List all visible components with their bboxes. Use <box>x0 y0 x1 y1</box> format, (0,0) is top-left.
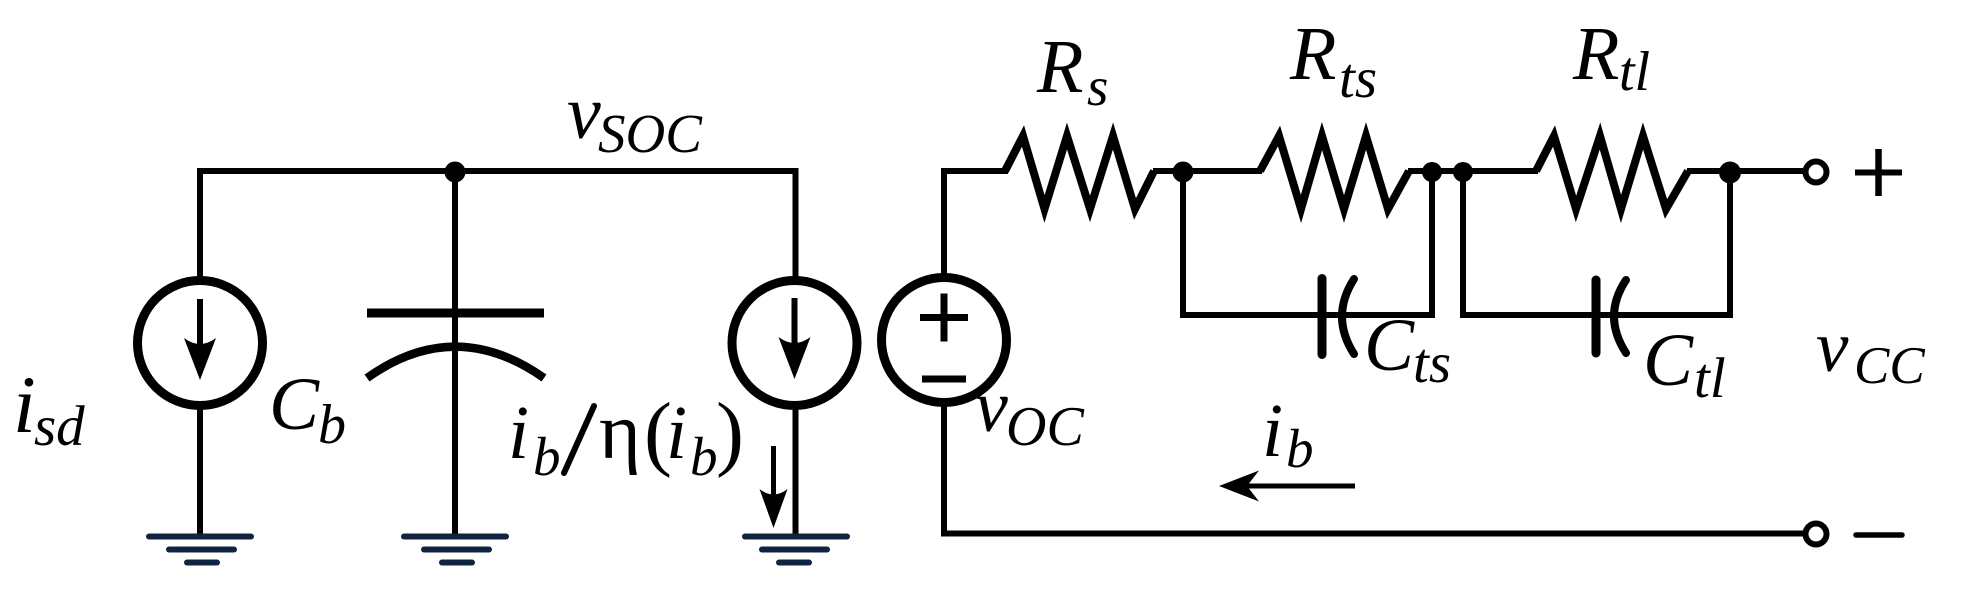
current source I2 arrow <box>792 298 798 355</box>
wire Rts to Rtl <box>1408 168 1538 174</box>
svg-text:CC: CC <box>1854 337 1925 395</box>
ground G3 <box>745 537 847 563</box>
svg-text:b: b <box>1286 418 1314 479</box>
svg-text:sd: sd <box>34 395 85 458</box>
wire right branch down to current source ib/eta <box>793 171 799 281</box>
wire Rtl to terminal <box>1687 168 1803 174</box>
current source I1 arrow <box>197 299 203 356</box>
wire below current source I1 <box>197 407 203 539</box>
capacitor Ctl curved plate <box>1614 280 1626 353</box>
wire capacitor Cb branch <box>452 171 458 539</box>
current direction arrow into ground <box>771 446 776 505</box>
capacitor Cts left plate <box>1318 279 1327 355</box>
svg-text:tl: tl <box>1619 41 1650 103</box>
svg-text:C: C <box>1643 319 1694 402</box>
terminal plus (open circle) <box>1806 162 1827 183</box>
ground G2 <box>404 537 506 563</box>
minus sign at terminal <box>1856 532 1902 538</box>
resistor Rtl zigzag <box>1536 136 1688 209</box>
voltage source plus sign <box>920 314 968 321</box>
wire left branch down to current source isd <box>197 171 203 281</box>
wire above voltage source vOC <box>941 171 947 280</box>
wire left side of Rtl-Ctl loop <box>1460 171 1466 318</box>
wire bottom of Rts-Cts loop <box>1180 312 1435 318</box>
wire right side of Rts-Cts loop <box>1429 171 1435 318</box>
svg-text:C: C <box>269 363 320 446</box>
wire Rs to Rts <box>1153 168 1262 174</box>
terminal minus (open circle) <box>1806 524 1827 545</box>
voltage source vOC circle <box>882 278 1007 403</box>
wire right side of Rtl-Ctl loop <box>1727 171 1733 318</box>
svg-text:i: i <box>13 359 36 450</box>
wire bottom of Rtl-Ctl loop <box>1460 312 1733 318</box>
wire vOC to Rs <box>941 168 1008 174</box>
capacitor Cts curved plate <box>1342 279 1354 354</box>
resistor Rs zigzag <box>1005 136 1154 209</box>
resistor Rts zigzag <box>1260 136 1409 209</box>
svg-text:): ) <box>716 386 744 479</box>
node C junction dot <box>1422 162 1442 182</box>
wire below voltage source vOC <box>941 404 947 536</box>
current arrow ib on bottom rail <box>1240 484 1355 489</box>
svg-text:b: b <box>318 394 346 456</box>
svg-text:v: v <box>567 71 601 155</box>
bottom rail wire <box>941 531 1803 537</box>
svg-text:SOC: SOC <box>598 103 703 164</box>
ground G1 <box>149 537 251 563</box>
wire top-left rail (node vSOC) <box>197 168 799 174</box>
voltage source minus sign <box>922 376 966 383</box>
svg-text:R: R <box>1572 12 1619 96</box>
svg-text:b: b <box>533 426 561 487</box>
capacitor Ctl left plate <box>1592 280 1601 353</box>
capacitor Cb bottom curved plate <box>367 347 544 378</box>
svg-text:C: C <box>1364 304 1415 387</box>
svg-text:ts: ts <box>1339 47 1377 110</box>
current source I2 (ib/eta(ib)) circle <box>732 281 857 406</box>
svg-text:s: s <box>1087 56 1108 117</box>
svg-text:R: R <box>1289 12 1336 96</box>
svg-text:ts: ts <box>1413 332 1451 395</box>
svg-text:i: i <box>508 391 529 475</box>
svg-text:v: v <box>1816 306 1849 387</box>
node D junction dot <box>1453 162 1473 182</box>
svg-text:v: v <box>975 366 1008 448</box>
current source I1 (isd) circle <box>138 281 263 406</box>
svg-text:i: i <box>1262 389 1283 473</box>
wire below current source I2 <box>793 406 799 539</box>
svg-text:η: η <box>599 388 641 476</box>
svg-text:tl: tl <box>1694 347 1726 410</box>
node E junction dot <box>1719 162 1741 184</box>
svg-text:OC: OC <box>1006 396 1084 458</box>
capacitor Cb top plate <box>367 309 544 318</box>
node A junction dot on vSOC rail <box>445 162 466 183</box>
node B junction dot <box>1173 162 1194 183</box>
plus sign at terminal <box>1855 170 1902 176</box>
svg-text:R: R <box>1036 25 1083 109</box>
svg-text:b: b <box>690 426 718 487</box>
wire left side of Rts-Cts loop <box>1180 171 1186 318</box>
svg-text:i: i <box>666 391 687 475</box>
